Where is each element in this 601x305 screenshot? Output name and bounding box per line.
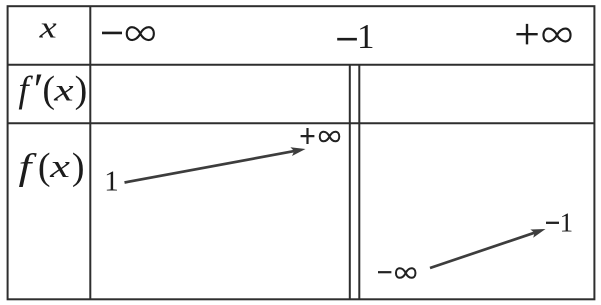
- label minus-infinity (x row, left): infinity lemniscate: [127, 27, 154, 40]
- increasing arrow from -infinity to -1: head: [530, 229, 545, 238]
- label minus-infinity (f(x) limit right of -1): infinity lemniscate: [396, 268, 416, 278]
- svg-text:f: f: [19, 147, 38, 188]
- label -1 (x row, middle): minus stroke: [337, 38, 357, 41]
- svg-text:x: x: [38, 11, 57, 44]
- svg-text:x: x: [53, 73, 74, 108]
- svg-text:1: 1: [104, 165, 119, 197]
- increasing arrow from 1 to +infinity: head: [290, 147, 305, 156]
- double bar at x = -1 (right line): [358, 65, 360, 300]
- label minus-infinity (x row, left): minus stroke: [102, 32, 122, 35]
- label plus-infinity (f(x) limit left of -1): plus sign: [301, 128, 315, 144]
- label -1 (f(x) limit at +infinity, top-right): minus stroke: [546, 222, 559, 224]
- label minus-infinity (f(x) limit right of -1): minus stroke: [378, 271, 391, 273]
- label x (header, row 1): [38, 11, 57, 44]
- svg-text:f: f: [18, 70, 33, 111]
- svg-text:1: 1: [357, 17, 375, 56]
- svg-text:(: (: [42, 69, 55, 111]
- increasing arrow from -infinity to -1: shaft: [430, 233, 535, 268]
- label plus-infinity (f(x) limit left of -1): infinity lemniscate: [320, 132, 340, 142]
- increasing arrow from 1 to +infinity: shaft: [125, 151, 295, 182]
- label plus-infinity (x row, right): infinity lemniscate: [543, 29, 570, 42]
- svg-text:): ): [72, 146, 85, 188]
- svg-text:1: 1: [560, 208, 574, 238]
- header column divider: [89, 6, 91, 299]
- svg-text:x: x: [49, 149, 70, 184]
- label f(x) (row 3 header): letter x: [49, 149, 70, 184]
- double bar at x = -1 (left line): [349, 65, 351, 300]
- label f(x) (row 3 header): letter f: [19, 147, 38, 188]
- row divider between f'(x) row and f(x) row: [8, 122, 595, 124]
- label plus-infinity (x row, right): plus sign: [516, 24, 537, 45]
- label f'(x) (row 2 header): letter x: [53, 73, 74, 108]
- row divider between x row and f'(x) row: [8, 64, 595, 66]
- svg-text:(: (: [38, 146, 51, 188]
- svg-text:): ): [75, 69, 88, 111]
